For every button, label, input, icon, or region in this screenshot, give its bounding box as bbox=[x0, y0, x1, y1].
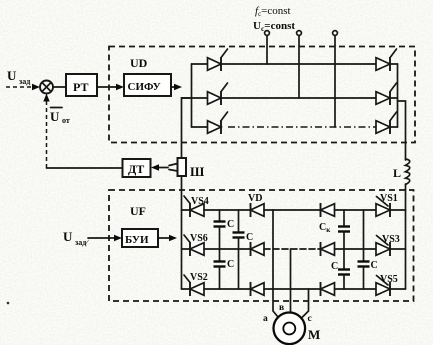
diode cutoff row2 bbox=[320, 242, 322, 256]
svg-text:U: U bbox=[50, 109, 60, 124]
svg-text:зад∕: зад∕ bbox=[75, 238, 89, 247]
wire shunt to DT arrow bbox=[158, 167, 168, 169]
wire DT to feedback bbox=[47, 167, 123, 169]
wire phase a bbox=[273, 210, 278, 317]
wire terminal1 to row1 bbox=[266, 36, 268, 65]
wire rect row2 middle bbox=[221, 97, 376, 99]
svg-text:СИФУ: СИФУ bbox=[128, 81, 161, 93]
svg-text:UF: UF bbox=[130, 204, 146, 218]
wire BUI to inverter bbox=[158, 237, 169, 239]
wire feedback vertical bbox=[46, 97, 48, 168]
svg-text:U: U bbox=[7, 68, 17, 83]
capacitor C right rail1 bottom bbox=[343, 249, 345, 270]
wire rect row2 right bbox=[390, 97, 398, 99]
wire inv row1 d bbox=[390, 209, 406, 211]
thyristor rect row1 right bbox=[376, 58, 390, 71]
wire phase b bbox=[290, 249, 292, 313]
wire Uzad.f to BUI bbox=[88, 237, 114, 239]
rectifier left bus bbox=[191, 64, 193, 127]
svg-text:ДТ: ДТ bbox=[128, 162, 144, 176]
svg-text:VS4: VS4 bbox=[191, 196, 209, 207]
wire inv row2 c bbox=[335, 248, 377, 250]
shunt Sh bbox=[178, 158, 187, 176]
inductor L bbox=[406, 159, 410, 185]
thyristor VS6 bbox=[189, 242, 191, 256]
wire rect row2 left bbox=[182, 97, 208, 99]
svg-text:VD: VD bbox=[248, 193, 262, 204]
wire shunt to inverter bus bbox=[181, 176, 183, 210]
wire rect row1 middle bbox=[221, 63, 376, 65]
svg-text:L: L bbox=[393, 166, 401, 180]
capacitor C left rail2 bbox=[238, 210, 240, 233]
svg-text:Ш: Ш bbox=[190, 164, 205, 179]
wire terminal3 to row3 bbox=[334, 36, 336, 128]
svg-text:VS1: VS1 bbox=[380, 193, 398, 204]
wire rect row1 left bbox=[192, 63, 208, 65]
block SIFU bbox=[124, 74, 171, 96]
wire inv row1 c bbox=[335, 209, 377, 211]
terminal 3 bbox=[333, 31, 338, 36]
diode VD1 bbox=[250, 203, 252, 217]
thyristor VS2 bbox=[189, 282, 191, 296]
wire rect row3 left bbox=[192, 126, 208, 128]
svg-text:от: от bbox=[62, 116, 70, 125]
inverter right bus bbox=[405, 210, 407, 289]
wire L to inverter bus bbox=[405, 184, 407, 210]
wire inv row2 d bbox=[390, 248, 406, 250]
svg-text:C: C bbox=[331, 261, 338, 272]
svg-text:a: a bbox=[263, 314, 268, 324]
shunt taps bbox=[169, 164, 178, 166]
thyristor VS5 bbox=[376, 283, 390, 296]
block DT bbox=[123, 159, 151, 177]
capacitor C left rail1 top bbox=[219, 210, 221, 222]
svg-text:c: c bbox=[308, 314, 312, 324]
thyristor rect row3 left bbox=[208, 121, 222, 134]
motor M bbox=[274, 313, 306, 345]
svg-text:M: M bbox=[308, 327, 320, 342]
thyristor rect row2 right bbox=[376, 92, 390, 105]
svg-text:U: U bbox=[63, 229, 73, 244]
diode cutoff row3 bbox=[320, 282, 322, 296]
wire rect row1 right bbox=[390, 63, 398, 65]
wire DC minus jog bbox=[182, 98, 192, 158]
svg-text:зад: зад bbox=[19, 77, 30, 86]
diode VD2 bbox=[250, 242, 252, 256]
terminal 2 bbox=[297, 31, 302, 36]
wire inv row3 b bbox=[264, 288, 321, 290]
wire inv row3 bbox=[182, 288, 191, 290]
wire inv row2 b bbox=[264, 248, 321, 250]
svg-text:в: в bbox=[279, 303, 284, 313]
thyristor VS1 bbox=[376, 204, 390, 217]
svg-text:VS2: VS2 bbox=[190, 272, 208, 283]
svg-text:fc=const: fc=const bbox=[255, 5, 291, 18]
wire inv row1 a bbox=[204, 209, 251, 211]
thyristor rect row2 left bbox=[208, 92, 222, 105]
wire junction to RT bbox=[53, 86, 66, 88]
wire SIFU to bridge bbox=[171, 86, 174, 88]
terminal 1 bbox=[265, 31, 270, 36]
wire inv row3 d bbox=[390, 288, 406, 290]
capacitor C left rail1 bottom bbox=[219, 249, 221, 262]
svg-text:VS3: VS3 bbox=[382, 234, 400, 245]
thyristor rect row3 right bbox=[376, 121, 390, 134]
wire DC plus jog bbox=[398, 101, 406, 160]
summing junction bbox=[40, 81, 53, 94]
svg-text:РТ: РТ bbox=[73, 80, 88, 94]
svg-text:Uc=const: Uc=const bbox=[253, 20, 295, 33]
svg-text:C: C bbox=[227, 259, 234, 270]
wire rect row3 right bbox=[390, 126, 398, 128]
capacitor C right rail2 bbox=[363, 210, 365, 262]
diode VD3 bbox=[250, 282, 252, 296]
wire phase c bbox=[303, 289, 309, 317]
wire rect row3 middle dashdot bbox=[228, 126, 376, 128]
UD dashed box bbox=[109, 47, 415, 143]
diode cutoff row1 bbox=[320, 203, 322, 217]
wire inv row2 a bbox=[204, 248, 251, 250]
stray dot bbox=[7, 302, 10, 305]
wire inv row2 bbox=[182, 248, 191, 250]
svg-text:C: C bbox=[371, 260, 378, 271]
svg-text:БУИ: БУИ bbox=[125, 234, 149, 246]
svg-text:C: C bbox=[246, 232, 253, 243]
wire inv row3 a bbox=[204, 288, 251, 290]
thyristor rect row1 left bbox=[208, 58, 222, 71]
svg-text:VS6: VS6 bbox=[190, 233, 208, 244]
capacitor Ck right rail1 top bbox=[343, 210, 345, 227]
UF dashed box bbox=[109, 190, 414, 301]
wire RT to SIFU bbox=[97, 86, 116, 88]
svg-text:VS5: VS5 bbox=[380, 274, 398, 285]
block BUI bbox=[122, 229, 158, 247]
wire Uzad input bbox=[6, 86, 32, 88]
wire terminal2 to row2 bbox=[298, 36, 300, 99]
thyristor VS4 bbox=[189, 203, 191, 217]
wire inv row3 c bbox=[335, 288, 377, 290]
svg-text:UD: UD bbox=[130, 56, 148, 70]
block RT bbox=[66, 74, 97, 96]
svg-text:C: C bbox=[227, 219, 234, 230]
wire inv row1 bbox=[182, 209, 191, 211]
inverter left bus bbox=[181, 210, 183, 289]
thyristor VS3 bbox=[376, 243, 390, 256]
rectifier right bus bbox=[397, 64, 399, 127]
wire inv row1 b bbox=[264, 209, 321, 211]
